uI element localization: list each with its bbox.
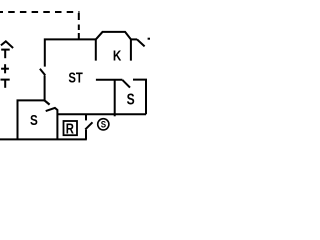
svg-text:K: K xyxy=(113,47,122,64)
svg-text:R: R xyxy=(66,120,75,137)
svg-text:S: S xyxy=(127,90,135,108)
svg-text:ST: ST xyxy=(68,69,83,86)
svg-text:S: S xyxy=(101,119,107,130)
svg-text:S: S xyxy=(30,112,38,129)
